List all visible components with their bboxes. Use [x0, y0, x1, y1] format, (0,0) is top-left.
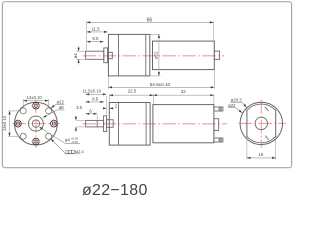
wire: motor end red crosshair vertical	[260, 100, 262, 148]
motor terminal tab lower	[214, 138, 223, 142]
gearbox body middle view	[109, 103, 150, 146]
dim 54.5	[108, 86, 214, 88]
gearbox face center hole phi4	[32, 120, 39, 127]
svg-text:ø22−180: ø22−180	[82, 182, 148, 199]
motor end inner circle phi20.3 top arc	[247, 104, 276, 110]
svg-text:2: 2	[115, 103, 118, 108]
svg-text:66: 66	[147, 18, 153, 24]
motor body top view	[153, 41, 215, 70]
svg-text:13±0.10: 13±0.10	[27, 95, 43, 100]
svg-text:9.5: 9.5	[92, 36, 99, 41]
motor rear bearing stub middle view	[214, 119, 219, 131]
dim 11.5	[87, 31, 108, 33]
gearbox face hub circle	[28, 116, 43, 131]
dim phi4 extension lines	[77, 50, 85, 52]
svg-text:ø4: ø4	[65, 137, 71, 142]
dim 22.5 and 32 extension lines	[108, 94, 110, 102]
dim 13 horizontal	[23, 100, 48, 102]
dim 6	[86, 113, 98, 115]
mounting hole NE	[46, 108, 52, 114]
motor body middle view	[153, 105, 214, 143]
motor flat right	[275, 110, 277, 138]
motor end outer circle phi22	[240, 102, 282, 144]
svg-text:3.5: 3.5	[76, 105, 82, 110]
top view output shaft	[86, 51, 104, 59]
screw hole N bold ring	[33, 102, 40, 109]
dim phi22	[158, 34, 160, 76]
screw hole E red tick	[53, 119, 55, 128]
mounting hole SE	[46, 133, 52, 139]
dim 22.5	[109, 94, 153, 96]
dim 15	[247, 157, 276, 159]
middle view output shaft with flat	[86, 120, 104, 127]
dim 32	[153, 94, 214, 96]
svg-text:ø20.3: ø20.3	[231, 98, 243, 103]
border frame	[2, 2, 291, 168]
screw hole N red tick	[31, 105, 40, 107]
svg-text:6: 6	[89, 108, 92, 113]
dim 11.5 tol	[86, 93, 107, 95]
motor end hub circle	[255, 117, 267, 129]
dim 9.5	[87, 41, 104, 43]
svg-text:11.5: 11.5	[91, 26, 100, 31]
label M2.5 screw note	[66, 150, 69, 153]
top view shaft inner stub	[108, 52, 113, 58]
gearbox rear ring line top view	[145, 34, 147, 76]
svg-text:22.5: 22.5	[128, 89, 137, 94]
ext line flange face middle	[105, 96, 107, 115]
wire: face view red crosshair horizontal	[13, 123, 60, 125]
svg-text:ø4: ø4	[73, 53, 78, 59]
screw hole W bold ring	[15, 120, 22, 127]
dim 15 extension lines	[246, 139, 248, 159]
wire: middle view red centerline	[83, 123, 227, 125]
motor terminal tab upper	[214, 107, 223, 111]
screw hole W red tick	[17, 119, 19, 128]
terminal hole upper	[219, 108, 221, 110]
wire: face view red crosshair vertical	[35, 100, 37, 149]
svg-text:32: 32	[181, 89, 186, 94]
svg-text:M2.5: M2.5	[75, 149, 85, 154]
wire: top view red centerline	[83, 55, 224, 57]
gearbox rear ring line middle view	[145, 103, 147, 146]
dim 54.5 extension lines	[107, 77, 109, 89]
gearbox face outer circle	[15, 102, 58, 145]
motor flat left	[246, 110, 248, 138]
screw hole E bold ring	[51, 120, 58, 127]
terminal hole lower	[219, 139, 221, 141]
dim 3.5 extension lines	[76, 119, 84, 121]
gearbox front cap line middle view	[118, 103, 120, 146]
svg-text:9.5: 9.5	[92, 96, 99, 101]
shaft flat end tick	[96, 120, 98, 127]
svg-text:13±0.10: 13±0.10	[2, 115, 7, 131]
dim 66 extension lines	[86, 21, 88, 50]
gearbox front cap line top view	[118, 34, 120, 76]
svg-text:ø22: ø22	[56, 99, 64, 104]
svg-text:15: 15	[258, 152, 263, 157]
dim 66	[87, 21, 214, 23]
dim 3.5 arrows	[75, 115, 77, 120]
dim 9.5 middle	[86, 101, 104, 103]
middle view shaft flange boss	[104, 116, 107, 132]
svg-text:ø8: ø8	[59, 105, 65, 110]
dim 13 horizontal extension lines	[22, 99, 24, 108]
dim phi4 arrows	[78, 46, 80, 51]
middle view shaft inner stub	[107, 120, 114, 128]
crimp tab lower	[265, 136, 268, 140]
svg-text:ø22: ø22	[228, 103, 236, 108]
ext line flat end	[96, 115, 98, 120]
gearbox body top view	[108, 34, 149, 76]
motor rear stub top view	[214, 51, 219, 59]
svg-text:54.5±0.10: 54.5±0.10	[150, 82, 171, 87]
dim 13 vertical	[9, 111, 11, 136]
screw hole S red tick	[31, 141, 40, 143]
wire: motor end red crosshair horizontal	[239, 122, 287, 124]
mounting hole NW	[20, 108, 26, 114]
dim 2 arrows	[103, 107, 107, 109]
mounting hole SW	[20, 133, 26, 139]
top view shaft flange boss	[104, 48, 108, 63]
dim 13 vertical extension lines	[8, 110, 20, 112]
svg-text:11.5±0.10: 11.5±0.10	[83, 89, 102, 94]
crimp tab upper	[265, 107, 269, 111]
motor end inner circle phi20.3 bottom arc	[247, 136, 276, 142]
screw hole S bold ring	[33, 138, 40, 145]
dim phi22 extension lines	[151, 33, 161, 35]
svg-text:ø22: ø22	[153, 51, 158, 59]
